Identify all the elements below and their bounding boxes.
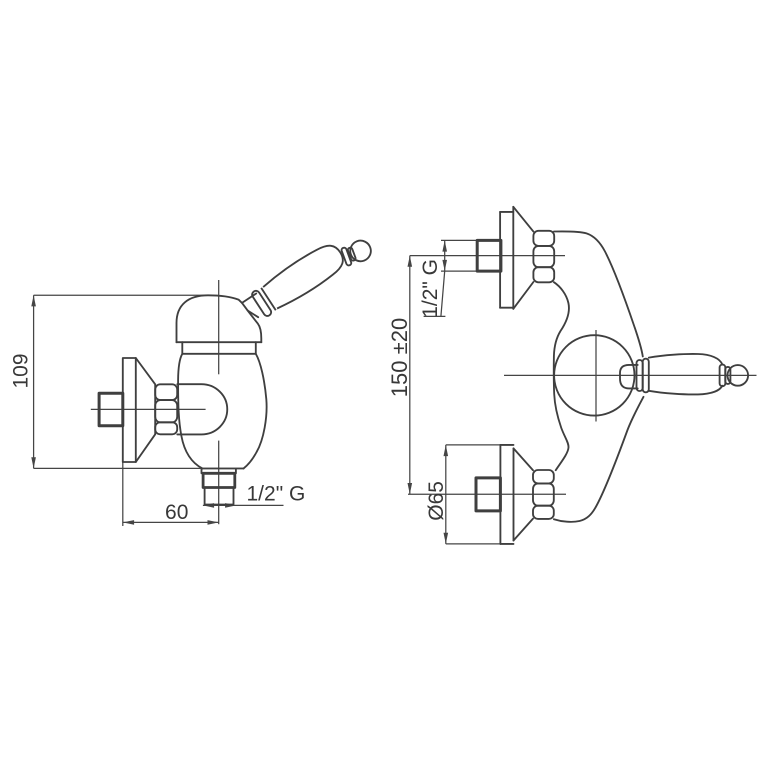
- svg-text:1/2" G: 1/2" G: [247, 483, 306, 506]
- svg-text:Ø65: Ø65: [425, 481, 448, 521]
- svg-text:150 ±20: 150 ±20: [387, 318, 412, 397]
- svg-text:1/2" G: 1/2" G: [419, 259, 442, 318]
- svg-text:60: 60: [165, 501, 188, 524]
- svg-text:109: 109: [10, 353, 33, 388]
